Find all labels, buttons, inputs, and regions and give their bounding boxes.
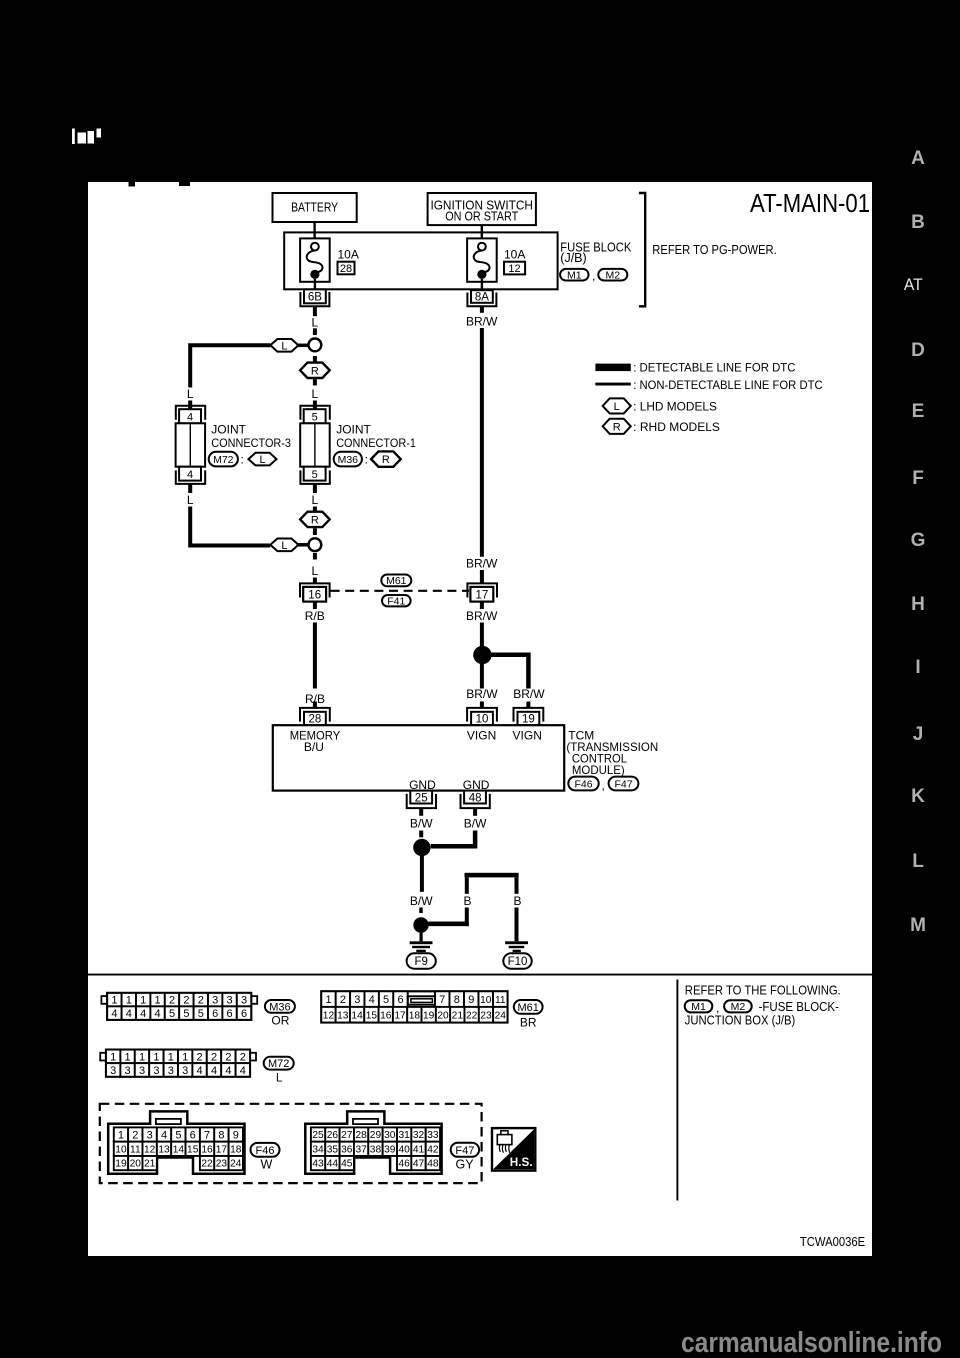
- svg-text:29: 29: [370, 1130, 382, 1141]
- svg-text:BATTERY: BATTERY: [291, 201, 339, 215]
- svg-text:25: 25: [415, 792, 428, 804]
- svg-text::: :: [365, 453, 368, 467]
- svg-text:11: 11: [130, 1144, 141, 1155]
- svg-text:M36: M36: [338, 454, 359, 466]
- svg-text:21: 21: [452, 1010, 464, 1021]
- svg-text:AT-MAIN-01: AT-MAIN-01: [750, 190, 870, 218]
- svg-text:38: 38: [370, 1144, 382, 1155]
- svg-text:4: 4: [140, 1008, 146, 1020]
- svg-text:: NON-DETECTABLE LINE FOR DTC: : NON-DETECTABLE LINE FOR DTC: [633, 380, 822, 392]
- svg-text:1: 1: [325, 994, 331, 1006]
- svg-text:3: 3: [147, 1129, 153, 1141]
- svg-text:1: 1: [118, 1129, 124, 1141]
- svg-text:9: 9: [468, 994, 474, 1006]
- svg-text:L: L: [187, 493, 194, 507]
- svg-text:3: 3: [212, 995, 218, 1007]
- svg-text:M1: M1: [567, 269, 582, 281]
- svg-text:BR/W: BR/W: [513, 687, 545, 701]
- svg-text:BR/W: BR/W: [466, 687, 498, 701]
- svg-text:14: 14: [351, 1010, 363, 1021]
- svg-text:10A: 10A: [338, 248, 359, 262]
- svg-text:M1: M1: [691, 1001, 706, 1013]
- svg-text:3: 3: [153, 1065, 159, 1077]
- svg-text:32: 32: [413, 1130, 425, 1141]
- svg-text:4: 4: [369, 994, 375, 1006]
- svg-text:34: 34: [312, 1144, 324, 1155]
- svg-text:5: 5: [383, 994, 389, 1006]
- svg-text:W: W: [260, 1158, 272, 1172]
- svg-text:B/W: B/W: [410, 894, 433, 908]
- svg-text:B: B: [513, 894, 521, 908]
- svg-text:16: 16: [201, 1144, 213, 1155]
- svg-text:15: 15: [187, 1144, 199, 1155]
- svg-text:BR: BR: [520, 1015, 537, 1029]
- svg-text:20: 20: [437, 1010, 449, 1021]
- svg-text:L: L: [312, 564, 319, 578]
- svg-text:30: 30: [384, 1130, 396, 1141]
- svg-text:1: 1: [153, 1051, 159, 1063]
- svg-text:F41: F41: [387, 595, 405, 607]
- svg-text:2: 2: [240, 1051, 246, 1063]
- svg-text:27: 27: [341, 1130, 353, 1141]
- svg-text:4: 4: [155, 1008, 161, 1020]
- svg-text:2: 2: [132, 1129, 138, 1141]
- svg-text:6: 6: [241, 1008, 247, 1020]
- svg-text:6: 6: [212, 1008, 218, 1020]
- svg-text:B: B: [463, 894, 471, 908]
- svg-text:2: 2: [197, 1051, 203, 1063]
- svg-text:4: 4: [240, 1065, 246, 1077]
- svg-text:VIGN: VIGN: [467, 729, 496, 743]
- svg-text:20: 20: [130, 1159, 142, 1170]
- svg-text:4: 4: [197, 1065, 203, 1077]
- svg-text:3: 3: [354, 994, 360, 1006]
- svg-text:10A: 10A: [504, 248, 525, 262]
- svg-text:1: 1: [126, 995, 132, 1007]
- svg-text:F9: F9: [414, 956, 427, 968]
- svg-text:28: 28: [355, 1130, 367, 1141]
- svg-text:REFER TO THE FOLLOWING.: REFER TO THE FOLLOWING.: [685, 983, 841, 997]
- svg-text:48: 48: [469, 792, 482, 804]
- svg-text:12: 12: [323, 1010, 335, 1021]
- svg-text:21: 21: [144, 1159, 156, 1170]
- svg-text:39: 39: [384, 1144, 396, 1155]
- svg-text:23: 23: [480, 1010, 492, 1021]
- svg-text:9: 9: [233, 1129, 239, 1141]
- svg-text:13: 13: [158, 1144, 170, 1155]
- svg-text:BR/W: BR/W: [466, 556, 498, 570]
- svg-text:R: R: [382, 454, 390, 466]
- svg-text:B: B: [911, 212, 925, 233]
- svg-text:1: 1: [111, 995, 117, 1007]
- svg-text:35: 35: [327, 1144, 339, 1155]
- svg-text:,: ,: [592, 269, 595, 283]
- svg-text:4: 4: [211, 1065, 217, 1077]
- svg-text:5: 5: [312, 411, 318, 423]
- svg-text:13: 13: [337, 1010, 349, 1021]
- svg-text:22: 22: [466, 1010, 478, 1021]
- svg-text:R/B: R/B: [305, 609, 325, 623]
- svg-text:,: ,: [602, 779, 605, 793]
- svg-text:MODULE): MODULE): [572, 763, 625, 777]
- svg-text:3: 3: [125, 1065, 131, 1077]
- svg-text:5: 5: [175, 1129, 181, 1141]
- svg-text:H: H: [911, 594, 925, 615]
- svg-text:M2: M2: [731, 1001, 746, 1013]
- svg-text:2: 2: [340, 994, 346, 1006]
- svg-text:28: 28: [340, 263, 352, 275]
- svg-text:AT: AT: [904, 276, 923, 294]
- svg-text:8A: 8A: [475, 292, 489, 304]
- svg-text:E: E: [912, 401, 925, 422]
- svg-text:R: R: [311, 365, 319, 377]
- svg-text:1: 1: [182, 1051, 188, 1063]
- svg-text:6: 6: [397, 994, 403, 1006]
- svg-text:L: L: [312, 493, 319, 507]
- svg-text:1: 1: [139, 1051, 145, 1063]
- svg-text:3: 3: [110, 1065, 116, 1077]
- svg-text:F46: F46: [574, 778, 592, 790]
- svg-text:31: 31: [399, 1130, 411, 1141]
- svg-text:19: 19: [115, 1159, 127, 1170]
- svg-text:F10: F10: [508, 956, 528, 968]
- svg-text:JOINT: JOINT: [211, 423, 246, 437]
- svg-text:48: 48: [427, 1159, 439, 1170]
- svg-text:36: 36: [341, 1144, 353, 1155]
- svg-text:CONNECTOR-3: CONNECTOR-3: [211, 436, 291, 450]
- svg-text:L: L: [259, 454, 265, 466]
- svg-text:10: 10: [115, 1144, 127, 1155]
- svg-text:12: 12: [508, 263, 520, 275]
- svg-text:4: 4: [111, 1008, 117, 1020]
- svg-text:(J/B): (J/B): [560, 251, 586, 265]
- svg-text:REFER TO PG-POWER.: REFER TO PG-POWER.: [652, 243, 776, 257]
- svg-text:I: I: [915, 657, 920, 678]
- svg-text:3: 3: [139, 1065, 145, 1077]
- svg-text:4: 4: [126, 1008, 132, 1020]
- svg-text:3: 3: [241, 995, 247, 1007]
- svg-text:3: 3: [168, 1065, 174, 1077]
- svg-text:: DETECTABLE LINE FOR DTC: : DETECTABLE LINE FOR DTC: [633, 363, 795, 375]
- svg-text:H.S.: H.S.: [510, 1155, 533, 1169]
- svg-text:BR/W: BR/W: [466, 609, 498, 623]
- svg-text:44: 44: [327, 1159, 339, 1170]
- svg-text:22: 22: [201, 1159, 213, 1170]
- svg-text:6B: 6B: [308, 292, 322, 304]
- svg-text:2: 2: [211, 1051, 217, 1063]
- svg-text:40: 40: [399, 1144, 411, 1155]
- svg-text:17: 17: [394, 1010, 406, 1021]
- svg-text:2: 2: [183, 995, 189, 1007]
- svg-text:42: 42: [427, 1144, 439, 1155]
- svg-text:L: L: [912, 851, 924, 872]
- svg-text:26: 26: [327, 1130, 339, 1141]
- svg-text:6: 6: [190, 1129, 196, 1141]
- svg-text:16: 16: [380, 1010, 392, 1021]
- svg-text:2: 2: [198, 995, 204, 1007]
- svg-text:46: 46: [399, 1159, 411, 1170]
- svg-text:JOINT: JOINT: [336, 423, 371, 437]
- svg-text:8: 8: [454, 994, 460, 1006]
- svg-text:17: 17: [476, 589, 489, 601]
- svg-text:14: 14: [173, 1144, 185, 1155]
- svg-text:28: 28: [309, 713, 322, 725]
- svg-text:2: 2: [169, 995, 175, 1007]
- svg-text:F46: F46: [256, 1145, 275, 1157]
- svg-text:ON OR START: ON OR START: [445, 209, 518, 223]
- svg-text:B/W: B/W: [410, 816, 433, 830]
- svg-text:3: 3: [227, 995, 233, 1007]
- svg-text:19: 19: [522, 713, 535, 725]
- svg-text:carmanualsonline.info: carmanualsonline.info: [681, 1327, 942, 1358]
- svg-text:4: 4: [161, 1129, 167, 1141]
- svg-text:23: 23: [216, 1159, 228, 1170]
- svg-text:CONNECTOR-1: CONNECTOR-1: [336, 436, 416, 450]
- svg-text:: RHD MODELS: : RHD MODELS: [633, 422, 720, 434]
- svg-text:47: 47: [413, 1159, 425, 1170]
- svg-text:VIGN: VIGN: [513, 729, 542, 743]
- svg-text:M2: M2: [606, 269, 621, 281]
- svg-text:L: L: [281, 540, 287, 552]
- svg-text:4: 4: [187, 469, 193, 481]
- svg-text:F47: F47: [455, 1145, 474, 1157]
- svg-text:R: R: [613, 421, 621, 433]
- svg-text:1: 1: [125, 1051, 131, 1063]
- svg-text:43: 43: [312, 1159, 324, 1170]
- svg-text::: :: [241, 453, 244, 467]
- svg-text:2: 2: [225, 1051, 231, 1063]
- svg-text:24: 24: [495, 1010, 507, 1021]
- svg-text:B/U: B/U: [304, 740, 324, 754]
- svg-text:7: 7: [204, 1129, 210, 1141]
- svg-text:17: 17: [216, 1144, 228, 1155]
- svg-text:4: 4: [187, 411, 193, 423]
- svg-text:25: 25: [312, 1130, 324, 1141]
- svg-text:L: L: [187, 387, 194, 401]
- svg-text:5: 5: [183, 1008, 189, 1020]
- svg-text:M36: M36: [269, 1001, 290, 1013]
- svg-text:1: 1: [110, 1051, 116, 1063]
- svg-text:11: 11: [495, 995, 506, 1006]
- svg-text:L: L: [276, 1071, 283, 1085]
- svg-text:A: A: [911, 148, 925, 169]
- svg-text:10: 10: [476, 713, 489, 725]
- svg-text:19: 19: [423, 1010, 435, 1021]
- svg-text:15: 15: [366, 1010, 378, 1021]
- svg-text:G: G: [911, 530, 926, 551]
- svg-text:L: L: [281, 340, 287, 352]
- svg-text:8: 8: [218, 1129, 224, 1141]
- svg-text:10: 10: [480, 995, 492, 1006]
- svg-text:M: M: [910, 915, 926, 936]
- svg-text:18: 18: [409, 1010, 421, 1021]
- svg-text:BR/W: BR/W: [466, 314, 498, 328]
- svg-text:M72: M72: [213, 454, 234, 466]
- svg-text:TCWA0036E: TCWA0036E: [800, 1235, 865, 1249]
- svg-text:7: 7: [439, 994, 445, 1006]
- svg-text:L: L: [312, 315, 319, 329]
- svg-text:D: D: [911, 340, 925, 361]
- svg-text:41: 41: [413, 1144, 425, 1155]
- svg-text:5: 5: [198, 1008, 204, 1020]
- svg-text:18: 18: [230, 1144, 242, 1155]
- svg-text:B/W: B/W: [464, 816, 487, 830]
- svg-text:M61: M61: [386, 575, 407, 587]
- svg-text:J: J: [913, 724, 924, 745]
- svg-text:L: L: [614, 401, 620, 413]
- svg-text:33: 33: [427, 1130, 439, 1141]
- svg-text:45: 45: [341, 1159, 353, 1170]
- svg-text:37: 37: [355, 1144, 367, 1155]
- svg-text:16: 16: [308, 589, 321, 601]
- svg-text:5: 5: [169, 1008, 175, 1020]
- svg-text:: LHD MODELS: : LHD MODELS: [633, 401, 717, 413]
- svg-text:OR: OR: [271, 1014, 289, 1028]
- svg-text:5: 5: [312, 469, 318, 481]
- svg-text:L: L: [312, 387, 319, 401]
- svg-text:GY: GY: [455, 1158, 474, 1172]
- svg-text:R: R: [311, 514, 319, 526]
- svg-text:K: K: [911, 786, 925, 807]
- svg-text:12: 12: [144, 1144, 156, 1155]
- svg-text:JUNCTION BOX (J/B): JUNCTION BOX (J/B): [685, 1014, 796, 1028]
- svg-text:6: 6: [227, 1008, 233, 1020]
- svg-text:M72: M72: [268, 1058, 289, 1070]
- svg-text:-FUSE BLOCK-: -FUSE BLOCK-: [759, 1000, 839, 1014]
- svg-text:4: 4: [225, 1065, 231, 1077]
- svg-text:1: 1: [155, 995, 161, 1007]
- svg-text:F47: F47: [614, 778, 632, 790]
- svg-text:F: F: [912, 468, 924, 489]
- svg-text:24: 24: [230, 1159, 242, 1170]
- svg-text:3: 3: [182, 1065, 188, 1077]
- svg-text:M61: M61: [517, 1002, 538, 1014]
- svg-text:1: 1: [140, 995, 146, 1007]
- svg-text:1: 1: [168, 1051, 174, 1063]
